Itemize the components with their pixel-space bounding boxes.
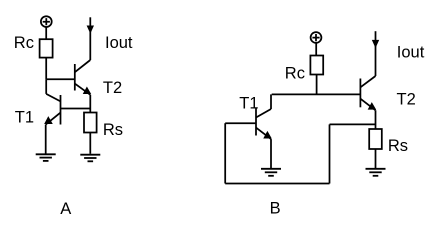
feedback wire up right bbox=[329, 124, 331, 183]
ground (A, under T1) bbox=[36, 154, 56, 161]
resistor Rs (B) bbox=[369, 129, 382, 149]
transistor T2 (B, NPN) bbox=[360, 76, 375, 110]
resistor Rc (A) bbox=[40, 39, 53, 57]
Iout current arrow (B) bbox=[373, 40, 379, 47]
wire Rc to node (B) bbox=[316, 75, 318, 95]
wire T2 emitter down to Rs bbox=[89, 95, 91, 113]
Iout current arrow (A) bbox=[87, 26, 93, 33]
svg-text:Iout: Iout bbox=[397, 43, 425, 61]
wire supply to Rc (B) bbox=[315, 43, 317, 56]
svg-text:T2: T2 bbox=[397, 91, 416, 109]
svg-text:Rc: Rc bbox=[285, 65, 305, 83]
feedback wire T1 base to bottom bbox=[224, 123, 226, 183]
T2 (A) emitter arrowhead bbox=[84, 87, 91, 93]
wire node down to T1 collector bbox=[45, 79, 47, 94]
transistor T1 (B, NPN) bbox=[225, 108, 271, 139]
wire T1 emitter to ground (B) bbox=[270, 139, 272, 168]
ground (A, under Rs) bbox=[80, 155, 100, 162]
svg-text:T2: T2 bbox=[103, 79, 122, 97]
feedback wire bottom run bbox=[225, 183, 329, 185]
T1 (B) emitter arrowhead bbox=[264, 132, 271, 138]
svg-text:Iout: Iout bbox=[105, 34, 133, 52]
transistor T2 (A, NPN) bbox=[75, 60, 91, 95]
wire T2 emitter down to Rs (B) bbox=[375, 110, 377, 129]
wire node down to T1 collector (B) bbox=[270, 94, 272, 109]
ground (B, under T1) bbox=[261, 169, 281, 176]
transistor T1 (A, mirrored NPN) bbox=[46, 94, 91, 125]
wire Rc to node bbox=[45, 58, 47, 80]
ground (B, under Rs) bbox=[366, 169, 386, 176]
T1 (A) emitter arrowhead bbox=[45, 117, 52, 123]
wire node to T2 base bbox=[46, 78, 75, 80]
svg-text:Rs: Rs bbox=[388, 137, 408, 155]
svg-text:Rc: Rc bbox=[14, 34, 34, 52]
wire Rs to ground (B) bbox=[375, 149, 377, 168]
svg-text:A: A bbox=[60, 200, 71, 218]
svg-text:T1: T1 bbox=[239, 94, 258, 112]
wire node to T2 base (B) bbox=[272, 93, 361, 95]
power supply symbol (circle with plus) B bbox=[311, 32, 322, 43]
svg-text:T1: T1 bbox=[15, 109, 34, 127]
resistor Rc (B) bbox=[310, 56, 323, 75]
feedback wire to T2 emitter node bbox=[330, 123, 376, 125]
svg-text:B: B bbox=[270, 199, 281, 217]
resistor Rs (A) bbox=[84, 113, 97, 133]
T2 (B) emitter arrowhead bbox=[368, 103, 375, 109]
wire Rs to ground bbox=[89, 133, 91, 154]
wire T1 emitter to ground bbox=[45, 125, 47, 154]
power supply symbol (circle with plus) bbox=[41, 16, 52, 27]
wire T2 collector up (Iout branch) bbox=[89, 17, 91, 60]
wire supply to Rc bbox=[45, 27, 47, 40]
wire T2 collector up (Iout branch, B) bbox=[375, 31, 377, 76]
svg-text:Rs: Rs bbox=[103, 121, 123, 139]
